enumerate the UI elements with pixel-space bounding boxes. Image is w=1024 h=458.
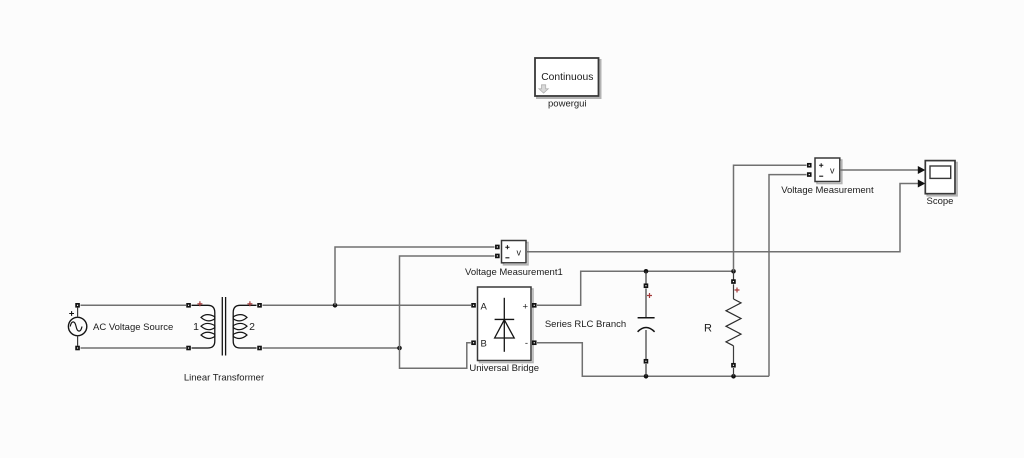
bridge diode [495, 298, 515, 352]
junction node bottom rail [397, 346, 402, 351]
svg-text:Voltage Measurement: Voltage Measurement [781, 185, 874, 196]
Universal Bridge B port [471, 340, 476, 345]
Voltage Measurement plus port [807, 163, 812, 168]
wire junction up to VM1 plus [335, 247, 495, 305]
transformer port 1 bottom [186, 346, 191, 351]
junction cap bottom [644, 374, 649, 379]
capacitor top port [644, 283, 649, 288]
svg-text:Universal Bridge: Universal Bridge [469, 363, 539, 374]
wire bridge plus to top rail [537, 271, 734, 305]
resistor bottom port [731, 363, 736, 368]
wire R top junction to VM plus [734, 165, 807, 271]
junction cap top [644, 269, 649, 274]
scope input arrow 2 [918, 180, 926, 188]
svg-text:Linear Transformer: Linear Transformer [184, 373, 264, 384]
Universal Bridge minus port [532, 340, 537, 345]
wire transformer top to bridge A [263, 304, 472, 306]
transformer core [222, 297, 225, 356]
svg-text:v: v [517, 247, 522, 257]
Voltage Measurement1 plus port [495, 245, 500, 250]
wire VM output to scope port1 [840, 169, 919, 171]
Voltage Measurement minus port [807, 172, 812, 177]
capacitor lower wire [645, 330, 647, 360]
scope input arrow 1 [918, 166, 926, 174]
AC source top stub [77, 308, 79, 318]
capacitor bottom port [644, 359, 649, 364]
resistor polarity plus [735, 288, 740, 293]
svg-text:-: - [525, 338, 528, 349]
AC source top port [75, 303, 80, 308]
resistor top port [731, 279, 736, 284]
svg-text:Voltage Measurement1: Voltage Measurement1 [465, 267, 563, 278]
svg-text:B: B [481, 339, 487, 350]
Voltage Measurement1 block [502, 241, 529, 265]
junction R bottom [731, 374, 736, 379]
AC source plus sign [69, 311, 74, 316]
resistor bottom lead [733, 368, 735, 376]
transformer polarity plus right [247, 301, 252, 306]
Scope block [925, 161, 957, 196]
capacitor branch top lead [645, 271, 647, 284]
capacitor curved plate [638, 328, 655, 332]
AC Voltage Source circle [68, 317, 86, 335]
powergui block [535, 58, 601, 98]
Voltage Measurement block [815, 158, 842, 184]
wire AC source top to transformer [81, 304, 187, 306]
Universal Bridge plus port [532, 303, 537, 308]
resistor lower wire [733, 346, 735, 364]
svg-text:+: + [522, 302, 528, 313]
svg-text:powergui: powergui [548, 99, 587, 110]
wire AC source bottom to transformer [81, 347, 187, 349]
svg-text:2: 2 [249, 321, 255, 333]
transformer port 2 top [257, 303, 262, 308]
junction R top [731, 269, 736, 274]
resistor upper wire [733, 284, 735, 299]
wire junction up to VM1 minus [400, 256, 495, 348]
Universal Bridge A port [471, 303, 476, 308]
transformer port 2 bottom [257, 346, 262, 351]
wire transformer bottom rail [263, 347, 400, 349]
Voltage Measurement1 minus port [495, 254, 500, 259]
wire bridge minus to bottom rail [537, 343, 769, 377]
junction node top rail [333, 303, 338, 308]
svg-text:v: v [830, 166, 835, 176]
svg-text:Continuous: Continuous [541, 72, 593, 83]
svg-text:Scope: Scope [927, 196, 954, 207]
capacitor polarity plus [647, 293, 652, 298]
svg-text:1: 1 [193, 321, 199, 333]
powergui resize arrow [539, 85, 548, 93]
transformer secondary winding [233, 305, 256, 348]
wire bottom rail corner up to VM minus [769, 175, 807, 377]
svg-text:A: A [481, 302, 488, 313]
AC source bottom port [75, 346, 80, 351]
capacitor upper wire [645, 289, 647, 318]
transformer port 1 top [186, 303, 191, 308]
svg-text:Series RLC Branch: Series RLC Branch [545, 319, 626, 330]
svg-text:R: R [704, 323, 712, 335]
wire VM1 output to scope port2 [526, 184, 919, 252]
svg-text:AC Voltage Source: AC Voltage Source [93, 322, 173, 333]
capacitor top plate [638, 317, 655, 319]
resistor zigzag [726, 299, 741, 346]
AC source bottom stub [77, 336, 79, 346]
Universal Bridge box [478, 287, 534, 363]
transformer polarity plus left [197, 301, 202, 306]
capacitor bottom lead [645, 364, 647, 376]
wire junction down to bridge B [400, 343, 471, 368]
transformer primary winding [192, 305, 215, 348]
resistor top lead [733, 271, 735, 280]
